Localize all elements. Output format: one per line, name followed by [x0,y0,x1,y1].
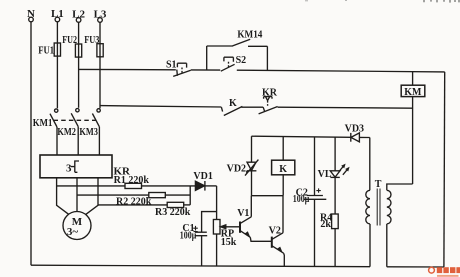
svg-text:V1: V1 [237,208,249,219]
fuse FU3 [84,35,103,57]
wire line2 K to KR [241,106,263,108]
wire KM coil feed vertical [412,72,414,86]
svg-text:VD1: VD1 [193,171,212,182]
coil KM [401,85,425,98]
svg-text:R3 220k: R3 220k [155,207,191,218]
svg-text:L1: L1 [51,8,64,20]
contact KM2 [57,109,79,138]
wire R2 R3 join vertical [189,186,191,205]
contact KM1 [33,109,58,129]
wire KM coil bottom vertical [412,97,414,184]
svg-text:3: 3 [66,163,72,175]
wire KM14 branch right vertical [266,46,268,70]
contact KR thermal [259,87,278,114]
wire motor lead mid [76,178,78,212]
scan artifacts top edge [305,0,459,3]
wire KM2 to KR box [77,127,79,155]
wire VD1 output down [216,186,218,220]
svg-text:FU2: FU2 [62,35,77,46]
diode VD3 [345,124,370,142]
wire L1 upper [56,22,58,43]
wire L2 to KM2 [78,57,80,108]
potentiometer RP [213,220,240,267]
contact KM14 [207,30,268,47]
wire collector node [251,195,283,197]
wire primary bottom lead [386,224,388,267]
relay coil K [272,137,295,196]
LED VL [318,137,352,214]
transformer T [366,179,391,226]
zener VD2 [227,136,259,196]
capacitor C1 [180,212,217,266]
svg-text:L2: L2 [72,9,85,21]
resistor R2 [77,193,190,208]
fuse FU2 [62,35,82,57]
wire L1 to KM1 [56,56,58,108]
svg-text:N: N [27,8,35,20]
svg-text:T: T [375,179,382,190]
wire KM14 branch left vertical [206,46,208,70]
svg-text:R1 220k: R1 220k [114,175,150,186]
capacitor C2 [293,137,327,267]
wire N vertical [30,22,32,265]
svg-text:K: K [229,98,237,109]
svg-text:KM1: KM1 [33,118,53,129]
svg-text:2k: 2k [320,219,331,230]
fuse FU1 [38,43,60,57]
wire L2 upper [78,22,80,44]
terminal L2 [72,9,85,23]
wire line1 S2 to right corner [237,70,445,72]
diode VD1 [193,171,216,191]
motor M [63,212,91,240]
svg-text:KM2: KM2 [57,127,76,138]
wire secondary bottom lead [369,224,371,267]
wire KM3 to KR box [98,127,100,155]
contact KM3 [79,109,100,138]
wire L3 to KM3 [99,57,101,109]
wire right side vertical [443,72,446,267]
svg-text:15k: 15k [221,237,237,248]
svg-text:R2 220k: R2 220k [116,196,152,207]
wire bottom rail main [31,265,370,267]
wire primary top lead [387,184,413,190]
pushbutton S2 [221,55,246,71]
svg-text:100μ: 100μ [293,194,310,205]
resistor R1 [57,175,196,189]
dashed linkage [54,119,96,121]
svg-text:S1: S1 [166,59,177,70]
svg-text:100μ: 100μ [180,231,197,242]
svg-text:VD2: VD2 [227,164,246,175]
terminal L3 [94,9,107,23]
terminal L1 [51,8,64,22]
svg-text:3~: 3~ [67,226,79,238]
svg-text:KM: KM [404,87,422,98]
wire KM1 to KR box [56,127,58,155]
wire L3 upper [99,22,101,43]
resistor R4 [320,213,338,267]
thermal relay KR box [40,155,131,178]
wire dc supply top line [252,136,351,137]
svg-text:S2: S2 [236,55,247,66]
wire line2 KR to KM coil [278,107,413,108]
svg-text:KM3: KM3 [79,127,98,138]
svg-text:VD3: VD3 [345,124,364,135]
svg-text:K: K [279,164,287,175]
wire control line 1 from L2 [79,68,176,70]
wire motor lead right [86,178,98,215]
contact K [221,98,242,116]
terminal N [27,8,35,22]
transistor V2 [269,196,285,267]
wire line1 S1 to S2 [191,69,220,71]
wire bottom rail right loop [387,266,444,268]
resistor R3 [98,202,191,218]
wire motor lead left [57,178,69,215]
svg-text:FU3: FU3 [84,35,99,46]
pushbutton S1 [166,59,191,76]
watermark [429,267,460,277]
svg-text:L3: L3 [94,9,107,21]
transistor V1 [237,196,272,242]
wire control line 2 from L3 [100,106,222,107]
svg-text:FU1: FU1 [38,46,54,57]
wire VD3 to transformer [369,138,371,191]
